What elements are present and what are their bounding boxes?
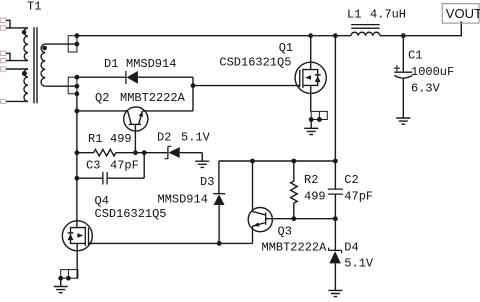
junction R1 / C3 riser [142,150,147,155]
zener diode D2 [165,146,203,158]
wire winding C top to J1 [45,43,77,45]
junction left rail / Q2 collector [75,109,80,114]
polarity dot winding C [42,46,47,51]
port P1 [1,18,6,22]
capacitor C2 [328,161,343,219]
junction base rail / C2-D4 [333,216,338,221]
svg-text:47pF: 47pF [110,159,139,173]
capacitor C3 [77,153,144,185]
Q4 body diode [68,232,74,234]
wire port P4 to winding A bottom [6,60,28,62]
junction middle rail / Q3 collector [250,159,255,164]
ground right of D2 [195,153,209,168]
Q4 source lead [76,243,78,278]
Q2 base bar [129,123,141,125]
port P2 [1,26,6,30]
Q1 body diode [315,74,321,76]
VOUT box [442,4,479,23]
svg-text:4.7uH: 4.7uH [370,8,406,22]
junction middle rail / C2 [333,159,338,164]
junction gate rail / D3 [217,241,222,246]
Q4 body frame [71,228,86,244]
Q2 collector wire from left rail [77,110,128,112]
transformer T1 [1,18,47,104]
port P3 [1,51,6,55]
Q1 drain lead [310,36,312,70]
Q3 emitter lead [252,226,254,243]
svg-text:T1: T1 [27,0,41,14]
junction J2 tap [75,84,80,89]
wire node drop x193 [192,77,194,111]
ground under D4 [328,290,342,296]
junction left rail / R1 [75,150,80,155]
Q4 gate bar [88,228,90,245]
wire port P2 to winding A top [6,27,28,29]
mosfet Q1 [295,36,326,112]
svg-text:Q2: Q2 [95,91,109,105]
ground under Q4 [54,278,68,293]
svg-text:D3: D3 [200,175,214,189]
svg-text:C2: C2 [344,173,358,187]
resistor R2 [291,161,298,219]
wire middle rail y161 [219,160,336,162]
svg-text:MMSD914: MMSD914 [126,57,176,71]
svg-text:L1: L1 [347,8,361,22]
primary winding A [24,28,28,61]
C3 riser to R1 node [143,153,145,179]
svg-text:Q4: Q4 [95,194,109,208]
svg-text:R1: R1 [88,132,102,146]
svg-text:499: 499 [304,189,326,203]
Q1 bulk arrow [309,77,311,79]
transistor Q2 [77,107,193,153]
svg-text:MMSD914: MMSD914 [158,193,208,207]
junction R1 / Q2 base [133,150,138,155]
pad strap Q1 source [309,111,328,122]
svg-text:MMBT2222A: MMBT2222A [120,91,186,105]
wire port P3 jog [6,53,10,60]
Q4 gate lead [89,242,93,244]
junction J1 pin top [75,33,80,38]
svg-text:6.3V: 6.3V [411,81,441,95]
junction J2 pin top [75,75,80,80]
Q1 channel bar [302,69,304,88]
wire winding C bottom to J2 [45,85,77,87]
wire port P1 jog [6,20,10,28]
connector box J1 (secondary top tap) [45,33,79,52]
svg-text:47pF: 47pF [344,189,373,203]
svg-text:499: 499 [110,132,132,146]
capacitor C1 [394,36,412,118]
secondary winding C [41,44,45,86]
wire port P5 to winding B top [6,68,28,70]
junction top rail / right rail [333,33,338,38]
ground under C1 [396,118,410,124]
Q3 base bar [265,213,267,225]
plus sign C1 [394,65,400,71]
wire left rail [76,94,78,228]
junction top rail / C1 [401,33,406,38]
junction base rail / R2 [291,216,296,221]
svg-text:C3: C3 [86,159,100,173]
core [34,27,37,103]
svg-text:5.1V: 5.1V [181,131,211,145]
Q1 gate bar [299,70,301,87]
resistor R1 [77,149,167,156]
pad strap Q4 source [58,270,78,281]
Q3 base wire [266,218,336,220]
wire Q1 gate [193,85,300,87]
svg-text:D2: D2 [157,131,171,145]
junction left rail / C3 [75,176,80,181]
Q2 base lead [134,124,136,152]
junction top rail / Q1 drain [308,33,313,38]
Q1 source lead [310,85,312,111]
connector box J2 (secondary bottom tap) [45,75,79,96]
svg-text:D4: D4 [344,240,358,254]
primary winding B [24,69,28,101]
junction D1 node / Q1 gate [191,83,196,88]
Q1 body frame [303,70,318,86]
svg-text:CSD16321Q5: CSD16321Q5 [219,56,291,70]
diode D3 [213,161,225,243]
junction J2 pin bottom [75,91,80,96]
junction middle rail / R2 [291,159,296,164]
inductor L1 [351,25,380,36]
port P6 [1,99,6,103]
Q4 bulk arrow [77,235,79,237]
svg-text:VOUT: VOUT [446,6,480,21]
svg-text:CSD16321Q5: CSD16321Q5 [95,207,167,221]
wire D1 to node [138,76,193,78]
svg-text:MMBT2222A: MMBT2222A [262,240,328,254]
Q2 emitter wire [142,110,193,112]
Q3 emitter [253,223,266,227]
wire right rail [334,36,336,161]
polarity dot winding B [22,71,27,76]
wire port P6 to winding B bottom [6,100,28,102]
mosfet Q4 [62,221,92,278]
port P5 [1,67,6,71]
zener diode D4 [329,219,342,291]
Q3 collector lead [252,161,254,211]
Q2 emitter [139,111,143,124]
wire J2 to D1 [77,76,126,78]
svg-text:1000uF: 1000uF [411,65,454,79]
svg-text:5.1V: 5.1V [344,257,374,271]
wire gate rail y243 [89,242,253,244]
junction J1 tap [75,42,80,47]
svg-text:C1: C1 [408,49,422,63]
polarity dot winding A [22,30,27,35]
svg-text:Q1: Q1 [279,41,293,55]
diode D1 [77,71,193,84]
Q4 channel bar [84,227,86,246]
svg-text:R2: R2 [304,173,318,187]
wire top rail right of L1 [380,21,461,35]
transistor Q3 [248,161,335,243]
svg-text:Q3: Q3 [278,225,292,239]
port P4 [1,58,6,62]
svg-text:D1: D1 [104,57,118,71]
ground under Q1 [304,120,318,135]
wire top rail [77,35,351,37]
